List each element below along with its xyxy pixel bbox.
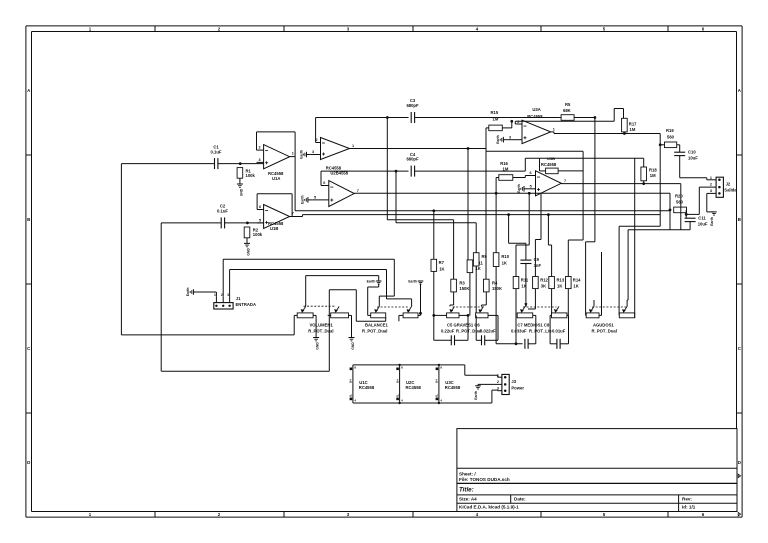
wire R18 hook bbox=[643, 158, 645, 167]
resistor R8 bbox=[467, 260, 483, 273]
ganged dashed link bbox=[523, 306, 557, 308]
wire R16 left bbox=[496, 178, 499, 253]
wire R17 jog bbox=[614, 109, 623, 122]
capacitor C11 bbox=[685, 216, 708, 227]
ganged dashed link bbox=[453, 306, 484, 308]
earth U3B pin5 bbox=[517, 184, 529, 193]
svg-text:R5: R5 bbox=[565, 102, 571, 107]
resistor R13 bbox=[549, 277, 565, 289]
svg-text:R20: R20 bbox=[675, 194, 683, 199]
wire J3 pin2 bbox=[478, 384, 502, 385]
resistor R5 bbox=[561, 102, 574, 120]
wire bbox=[225, 222, 264, 224]
connector J3 bbox=[497, 373, 524, 394]
svg-text:Earth: Earth bbox=[710, 217, 714, 226]
svg-text:R_POT_Dual: R_POT_Dual bbox=[308, 328, 333, 333]
ganged dashed link bbox=[304, 305, 337, 307]
wire bus lower bbox=[303, 214, 661, 216]
wire J1pin3 to wiperB bbox=[387, 270, 412, 307]
node junction bbox=[659, 143, 662, 146]
svg-text:BALANCE1: BALANCE1 bbox=[365, 323, 388, 328]
svg-text:10uF: 10uF bbox=[698, 222, 708, 227]
resistor R2 bbox=[244, 227, 263, 243]
wire U2B pin6 net bbox=[321, 171, 409, 185]
svg-text:R_POT_Lin: R_POT_Lin bbox=[529, 328, 552, 333]
svg-text:U1A: U1A bbox=[272, 176, 280, 181]
ground bbox=[237, 184, 244, 196]
resistor R10 bbox=[493, 253, 509, 267]
wire U3B pin6 fb bbox=[525, 158, 643, 171]
wire R13 top bbox=[547, 213, 552, 276]
wire agudos a wiper bbox=[593, 300, 595, 306]
label AGUDOS1 bbox=[592, 323, 617, 334]
wire J2 pin2 bbox=[686, 187, 716, 214]
svg-text:R19: R19 bbox=[666, 128, 674, 133]
svg-text:GND: GND bbox=[247, 248, 251, 256]
label BALANCE1 bbox=[362, 323, 388, 334]
op-amp U2A bbox=[311, 138, 354, 160]
svg-text:2: 2 bbox=[517, 120, 519, 124]
svg-text:R15: R15 bbox=[491, 110, 499, 115]
svg-text:0.022uF: 0.022uF bbox=[480, 328, 496, 333]
wire pin2 to R17 line bbox=[515, 120, 614, 122]
node junction bbox=[642, 182, 645, 185]
svg-text:GND: GND bbox=[351, 342, 355, 350]
op-amp U2C power bbox=[396, 365, 422, 403]
svg-text:0.01uF: 0.01uF bbox=[552, 328, 566, 333]
svg-text:Id: 1/1: Id: 1/1 bbox=[682, 505, 696, 510]
capacitor C8 bbox=[550, 315, 568, 348]
resistor R14 bbox=[566, 277, 582, 289]
node junction bbox=[386, 116, 389, 119]
op-amp U1B bbox=[257, 205, 294, 231]
svg-text:Earth: Earth bbox=[186, 288, 190, 297]
svg-text:0.1uF: 0.1uF bbox=[217, 208, 228, 213]
resistor R20 bbox=[674, 194, 687, 213]
resistor R3 bbox=[451, 279, 470, 292]
capacitor C10 bbox=[674, 150, 698, 161]
wire graves left node bbox=[432, 314, 446, 340]
wire R12 bottom bbox=[528, 289, 535, 309]
svg-text:R11: R11 bbox=[521, 278, 529, 283]
svg-text:1K: 1K bbox=[502, 261, 507, 266]
svg-text:0.1uF: 0.1uF bbox=[211, 149, 222, 154]
svg-text:U1B: U1B bbox=[270, 226, 278, 231]
earth U2B pin5 bbox=[301, 195, 313, 204]
wire R7 bottom bbox=[433, 271, 435, 315]
svg-text:560: 560 bbox=[676, 200, 684, 205]
wire R11 top bbox=[516, 193, 529, 276]
resistor R11 bbox=[513, 277, 529, 289]
svg-text:1: 1 bbox=[553, 127, 555, 131]
wire R19 right bbox=[677, 145, 680, 152]
svg-text:7: 7 bbox=[564, 179, 566, 183]
wire R18 bottom bbox=[643, 181, 645, 184]
op-amp U2B bbox=[312, 181, 359, 207]
earth balance left bbox=[367, 276, 382, 316]
svg-text:Date:: Date: bbox=[514, 496, 526, 501]
wire R7 top bbox=[432, 209, 435, 259]
connector J2 bbox=[710, 176, 737, 197]
svg-text:C11: C11 bbox=[698, 216, 706, 221]
svg-text:J3: J3 bbox=[511, 379, 516, 384]
wire to R14 bbox=[568, 240, 583, 277]
svg-text:1K: 1K bbox=[439, 267, 444, 272]
op-amp U1A bbox=[257, 145, 294, 181]
earth J2 bbox=[710, 212, 717, 226]
potentiometer BALANCE1a bbox=[368, 306, 386, 317]
label GRAVES1 bbox=[441, 323, 496, 334]
node junction bbox=[239, 162, 242, 165]
potentiometer VOLUMEN1a bbox=[294, 276, 316, 335]
wire agudos b wiper bbox=[627, 184, 690, 307]
svg-text:2: 2 bbox=[221, 293, 223, 297]
svg-text:0.22uF: 0.22uF bbox=[441, 328, 455, 333]
svg-text:3: 3 bbox=[497, 386, 499, 390]
node junction bbox=[669, 209, 672, 212]
wire U2B output bbox=[354, 192, 670, 194]
capacitor C2 bbox=[217, 204, 228, 229]
svg-text:3nF: 3nF bbox=[534, 263, 542, 268]
svg-text:R12: R12 bbox=[540, 278, 548, 283]
potentiometer MEDIOS1a bbox=[517, 306, 533, 317]
svg-text:150K: 150K bbox=[459, 286, 469, 291]
svg-text:D: D bbox=[27, 460, 30, 465]
wire C1 input loop bbox=[121, 164, 294, 335]
op-amp U1C power bbox=[349, 365, 375, 403]
svg-text:R_POT_Dual: R_POT_Dual bbox=[456, 328, 481, 333]
wire J2 pin1 bbox=[707, 178, 716, 180]
wire volumenB to balanceA bbox=[329, 290, 385, 322]
node junction bbox=[594, 116, 597, 119]
ganged dashed link bbox=[592, 306, 627, 308]
svg-text:V-: V- bbox=[396, 394, 400, 397]
svg-text:3: 3 bbox=[509, 135, 511, 139]
svg-text:RC4558: RC4558 bbox=[359, 385, 375, 390]
svg-text:5: 5 bbox=[259, 219, 261, 223]
svg-text:V+: V+ bbox=[349, 379, 353, 383]
resistor R19 bbox=[660, 128, 677, 148]
svg-text:150K: 150K bbox=[492, 286, 502, 291]
label VOLUMEN1 bbox=[308, 323, 333, 334]
svg-text:Earth: Earth bbox=[408, 279, 417, 283]
wire U1B output bbox=[290, 215, 303, 217]
ground bbox=[244, 243, 251, 255]
svg-text:1: 1 bbox=[214, 293, 216, 297]
svg-text:10uF: 10uF bbox=[688, 156, 698, 161]
wire R16 right bbox=[513, 176, 526, 178]
wire agudos b right bbox=[634, 158, 636, 317]
svg-text:B: B bbox=[738, 217, 741, 222]
wire agudos a left bbox=[586, 118, 595, 316]
wire C9 bottom bbox=[525, 264, 527, 307]
svg-text:R17: R17 bbox=[629, 122, 637, 127]
svg-text:B: B bbox=[27, 217, 30, 222]
svg-text:1M: 1M bbox=[650, 173, 656, 178]
svg-text:3: 3 bbox=[227, 293, 229, 297]
wire U1A feedback bbox=[257, 132, 296, 150]
earth U3A pin3 bbox=[496, 135, 508, 144]
wire U1B feedback bbox=[257, 194, 292, 217]
svg-text:R7: R7 bbox=[439, 260, 445, 265]
capacitor C9 bbox=[520, 257, 541, 268]
potentiometer GRAVES1a bbox=[447, 306, 459, 317]
wire C4 right bbox=[415, 170, 526, 172]
svg-text:1K: 1K bbox=[573, 283, 578, 288]
svg-text:RC4558: RC4558 bbox=[445, 385, 461, 390]
resistor R16 bbox=[499, 161, 513, 180]
svg-text:RC4558: RC4558 bbox=[406, 385, 422, 390]
op-amp U3A bbox=[508, 107, 555, 143]
svg-text:R9: R9 bbox=[482, 254, 488, 259]
earth J3 pin2 bbox=[474, 386, 481, 400]
resistor R4 bbox=[484, 279, 503, 292]
wire balanceB left bbox=[398, 315, 400, 321]
wire R17 bottom bbox=[623, 132, 626, 135]
svg-text:1: 1 bbox=[292, 152, 294, 156]
svg-text:Size: A4: Size: A4 bbox=[459, 496, 477, 501]
wire graves right node bbox=[459, 314, 469, 340]
svg-text:C9: C9 bbox=[534, 257, 540, 262]
wire U2A output bbox=[350, 148, 487, 150]
wire bbox=[218, 163, 264, 165]
svg-text:0.033uF: 0.033uF bbox=[511, 328, 527, 333]
svg-text:RC4558: RC4558 bbox=[527, 114, 543, 119]
svg-text:1M: 1M bbox=[503, 167, 509, 172]
resistor R18 bbox=[641, 167, 657, 181]
wire detour H bbox=[486, 150, 583, 152]
svg-text:R10: R10 bbox=[501, 254, 509, 259]
svg-text:1: 1 bbox=[352, 144, 354, 148]
resistor R7 bbox=[431, 259, 445, 271]
wire R10 bottom bbox=[495, 267, 497, 344]
wire J1 pin2 bbox=[223, 259, 394, 297]
resistor R17 bbox=[622, 118, 638, 132]
resistor R12 bbox=[533, 277, 549, 289]
node junction bbox=[495, 192, 498, 195]
resistor R15 bbox=[489, 110, 503, 131]
capacitor C7 bbox=[525, 315, 536, 348]
svg-text:68K: 68K bbox=[563, 108, 571, 113]
wire R8 col bbox=[468, 149, 470, 316]
wire power bottom rail bbox=[353, 390, 498, 403]
svg-text:5: 5 bbox=[314, 196, 316, 200]
svg-text:Earth: Earth bbox=[301, 195, 305, 204]
svg-text:3K: 3K bbox=[541, 283, 546, 288]
potentiometer GRAVES1b bbox=[476, 306, 488, 317]
wire J1 pin1 bbox=[193, 292, 216, 297]
node junction bbox=[467, 147, 470, 150]
title block bbox=[457, 429, 741, 516]
ground bbox=[313, 315, 320, 349]
wire C9 top bbox=[507, 213, 526, 260]
wire J1pin2 to wiperA bbox=[379, 259, 394, 306]
wire to R3 bbox=[387, 118, 453, 280]
wire V583 bbox=[582, 151, 584, 240]
op-amp U3C power bbox=[435, 365, 461, 403]
potentiometer AGUDOS1a bbox=[586, 306, 599, 317]
wire U3B output bbox=[561, 183, 681, 185]
svg-text:2: 2 bbox=[497, 380, 499, 384]
earth balance right bbox=[408, 279, 423, 315]
svg-text:File: TONOS DUDA.sch: File: TONOS DUDA.sch bbox=[459, 477, 510, 482]
resistor R1 bbox=[237, 168, 255, 184]
svg-text:6: 6 bbox=[529, 171, 531, 175]
svg-text:3: 3 bbox=[258, 158, 260, 162]
wire volumen wiper bbox=[306, 275, 379, 277]
svg-text:Title:: Title: bbox=[459, 486, 474, 493]
wire R6 right bbox=[558, 170, 583, 172]
label U2A bbox=[326, 166, 349, 176]
wire U3A pin2 bbox=[515, 121, 522, 124]
wire U3A output bbox=[551, 132, 661, 134]
svg-text:1M: 1M bbox=[630, 127, 636, 132]
wire U1A output bbox=[290, 132, 296, 211]
wire J2 pin3 bbox=[707, 193, 716, 212]
svg-text:Earth: Earth bbox=[367, 279, 376, 283]
wire U2Bout down bbox=[669, 193, 671, 230]
wire R20 right bbox=[685, 210, 688, 218]
earth J1 bbox=[186, 288, 193, 297]
node junction bbox=[246, 222, 249, 225]
wire agudos b left bbox=[619, 134, 660, 316]
svg-text:GND: GND bbox=[240, 188, 244, 196]
svg-text:C10: C10 bbox=[688, 150, 696, 155]
svg-text:R16: R16 bbox=[500, 161, 508, 166]
wire detour2 bbox=[485, 151, 487, 279]
svg-text:D: D bbox=[738, 460, 741, 465]
svg-text:V-: V- bbox=[435, 394, 439, 397]
wire R3 bottom bbox=[450, 292, 454, 307]
svg-text:6: 6 bbox=[259, 205, 261, 209]
wire R15 left bbox=[486, 128, 489, 149]
wire R11 bottom bbox=[515, 289, 517, 344]
wire graves right b bbox=[488, 315, 498, 340]
svg-text:C7 MEDIOS1 C8: C7 MEDIOS1 C8 bbox=[517, 323, 550, 328]
wire R14 bottom bbox=[567, 289, 569, 316]
wire J3 pin1 bbox=[498, 375, 502, 377]
svg-text:1K: 1K bbox=[557, 283, 562, 288]
svg-text:680pF: 680pF bbox=[406, 157, 419, 162]
svg-text:3: 3 bbox=[710, 189, 712, 193]
wire R12 top bbox=[535, 193, 541, 276]
node junction bbox=[398, 364, 440, 405]
svg-text:R13: R13 bbox=[557, 278, 565, 283]
svg-text:GND: GND bbox=[316, 342, 320, 350]
wire bbox=[121, 163, 214, 165]
svg-text:AGUDOS1: AGUDOS1 bbox=[593, 323, 614, 328]
svg-text:2: 2 bbox=[316, 138, 318, 142]
svg-text:Sheet: /: Sheet: / bbox=[459, 471, 476, 476]
wire to R9 bbox=[396, 171, 476, 253]
wire R13 bottom bbox=[551, 289, 553, 316]
svg-text:RC4558: RC4558 bbox=[541, 162, 557, 167]
svg-text:1K: 1K bbox=[521, 283, 526, 288]
potentiometer BALANCE1b bbox=[399, 306, 421, 317]
wire C2 input loop bbox=[161, 223, 329, 371]
svg-text:U3A: U3A bbox=[532, 107, 540, 112]
wire R15 right bbox=[502, 120, 513, 128]
svg-text:Earth: Earth bbox=[517, 184, 521, 193]
wire power top rail bbox=[353, 365, 498, 375]
resistor R6 feedback bbox=[541, 156, 558, 174]
wire U2A pin2 net bbox=[316, 118, 409, 143]
capacitor C6 bbox=[476, 315, 498, 345]
svg-text:100k: 100k bbox=[253, 232, 263, 237]
wire J1 pin3 bbox=[230, 270, 387, 297]
svg-text:560: 560 bbox=[667, 134, 675, 139]
capacitor C1 bbox=[211, 145, 222, 170]
svg-text:R_POT_Dual: R_POT_Dual bbox=[362, 328, 387, 333]
svg-text:Earth: Earth bbox=[474, 391, 478, 400]
wire R9 col bbox=[475, 266, 477, 315]
svg-text:2: 2 bbox=[710, 183, 712, 187]
svg-text:J1: J1 bbox=[236, 296, 241, 301]
earth U2A pin3 bbox=[299, 150, 311, 159]
svg-text:2: 2 bbox=[258, 146, 260, 150]
svg-text:U3B: U3B bbox=[547, 156, 555, 161]
svg-text:KiCad E.D.A. kicad (5.1.9)-1: KiCad E.D.A. kicad (5.1.9)-1 bbox=[459, 505, 519, 510]
svg-text:VOLUMEN1: VOLUMEN1 bbox=[310, 323, 334, 328]
op-amp U3B bbox=[525, 171, 566, 196]
capacitor C5 bbox=[434, 335, 468, 345]
svg-text:R4: R4 bbox=[492, 280, 498, 285]
potentiometer VOLUMEN1b bbox=[328, 290, 352, 318]
svg-text:ENTRADA: ENTRADA bbox=[236, 302, 256, 307]
wire bbox=[161, 222, 221, 224]
wire R4 bottom bbox=[482, 292, 487, 307]
svg-text:680pF: 680pF bbox=[406, 103, 419, 108]
label MEDIOS1 bbox=[511, 323, 566, 334]
svg-text:1M: 1M bbox=[493, 117, 499, 122]
wire medios frame left bbox=[496, 342, 522, 345]
resistor R9 bbox=[473, 253, 487, 271]
svg-text:3: 3 bbox=[312, 150, 314, 154]
svg-text:Earth: Earth bbox=[496, 135, 500, 144]
wire bus upper bbox=[295, 210, 670, 212]
wire detour bbox=[485, 149, 487, 152]
svg-text:R3: R3 bbox=[459, 280, 465, 285]
wire C3 right bbox=[415, 117, 560, 119]
svg-text:V+: V+ bbox=[396, 379, 400, 383]
svg-text:Rev:: Rev: bbox=[682, 496, 692, 501]
wire J3 pin3 bbox=[498, 389, 502, 392]
svg-text:J2: J2 bbox=[726, 182, 731, 187]
wire agudos a right bbox=[599, 252, 602, 315]
capacitor C4 bbox=[406, 152, 419, 177]
svg-text:C5 GRAVES1 C6: C5 GRAVES1 C6 bbox=[447, 323, 480, 328]
svg-text:Power: Power bbox=[511, 386, 524, 391]
node junction bbox=[528, 192, 531, 195]
svg-text:V+: V+ bbox=[435, 379, 439, 383]
node junction bbox=[395, 170, 398, 173]
capacitor C3 bbox=[406, 98, 419, 123]
wire R5 line bbox=[559, 117, 595, 119]
potentiometer MEDIOS1b bbox=[552, 306, 567, 317]
svg-text:Earth: Earth bbox=[299, 150, 303, 159]
wire C11 bottom bbox=[689, 222, 691, 230]
svg-text:6: 6 bbox=[323, 181, 325, 185]
svg-text:R14: R14 bbox=[573, 278, 581, 283]
svg-text:Salida: Salida bbox=[724, 188, 737, 193]
svg-text:R_POT_Dual: R_POT_Dual bbox=[592, 328, 617, 333]
ganged dashed link bbox=[377, 306, 410, 308]
potentiometer AGUDOS1b bbox=[619, 306, 634, 317]
svg-text:7: 7 bbox=[357, 189, 359, 193]
wire C10 bottom bbox=[680, 156, 707, 178]
ground bbox=[349, 315, 356, 349]
svg-text:100k: 100k bbox=[246, 173, 256, 178]
